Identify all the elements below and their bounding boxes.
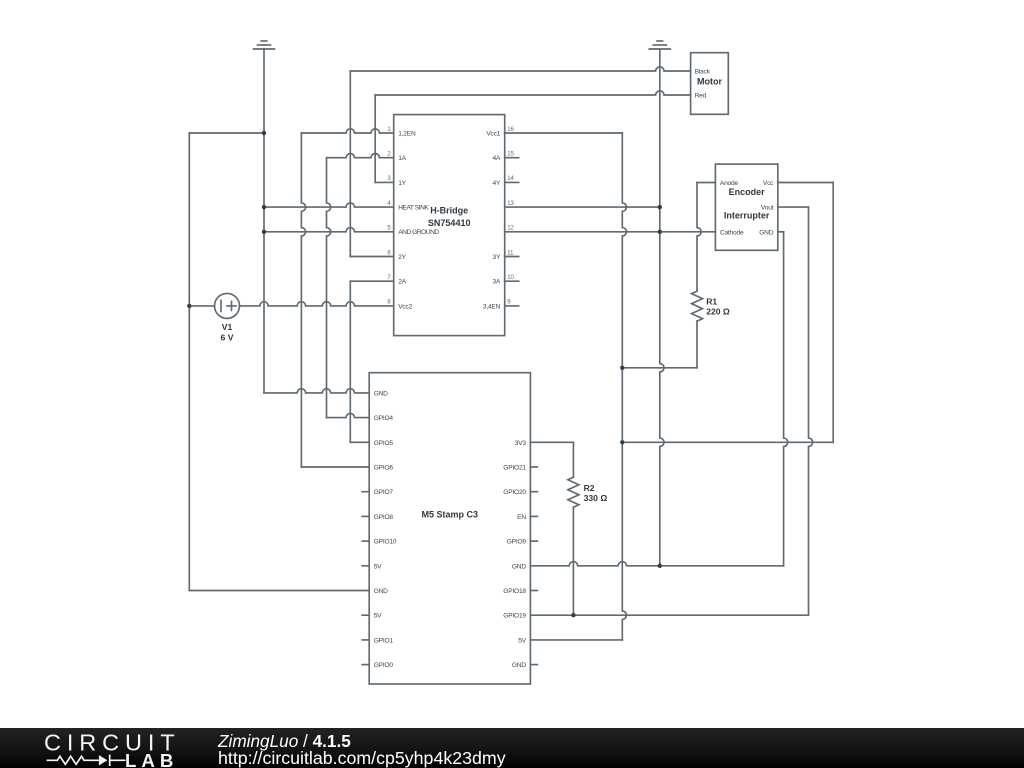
H-Bridge right pin stubs 15 14 11 10 9: [505, 158, 519, 306]
wire Vcc1 pin 16 to 5V net, horizontal: [505, 132, 623, 134]
M5 Stamp C3 box: [369, 373, 530, 684]
M5 pin labels left: [374, 390, 397, 669]
svg-text:HEAT SINK: HEAT SINK: [398, 205, 429, 212]
svg-text:2A: 2A: [398, 279, 406, 286]
node junction ground pin5 row: [262, 230, 266, 234]
Encoder title: [724, 187, 770, 221]
svg-text:GPIO6: GPIO6: [374, 465, 394, 472]
svg-text:GND: GND: [374, 588, 388, 595]
svg-text:GPIO20: GPIO20: [503, 489, 526, 496]
wire ground to HEAT SINK pin 4, horizontal: [264, 203, 394, 207]
svg-text:3: 3: [387, 176, 391, 182]
wire Encoder GND vertical: [784, 232, 788, 566]
node junction 5V net Vcc row: [620, 440, 624, 444]
wire R1 bottom to 5V net, horizontal: [622, 367, 697, 369]
svg-text:5: 5: [387, 226, 391, 232]
node junction ground pin13 row: [658, 205, 662, 209]
wire Encoder Vcc lead, horizontal: [778, 182, 833, 184]
svg-text:7: 7: [387, 275, 391, 281]
wire GPIO5 to 2A vertical: [349, 281, 351, 442]
wire M5 3V3 to R2 top, horizontal: [530, 441, 573, 443]
wire ground to AND GROUND pin 5, horizontal: [264, 228, 394, 232]
svg-text:4A: 4A: [493, 155, 501, 162]
wire Encoder Vout lead, horizontal: [778, 206, 809, 208]
svg-text:M5 Stamp C3: M5 Stamp C3: [422, 510, 479, 520]
svg-text:R2: R2: [584, 483, 595, 493]
svg-text:1Y: 1Y: [398, 180, 406, 187]
svg-text:1: 1: [387, 127, 391, 133]
M5 pin labels right: [503, 440, 526, 669]
svg-text:Vcc1: Vcc1: [486, 131, 500, 138]
resistor R1: [692, 183, 703, 368]
Encoder pin labels: [720, 180, 774, 236]
wire M5 5V right to 5V net, horizontal: [530, 639, 622, 641]
wire Motor Black to 2Y net, horizontal at motor black row: [350, 67, 690, 71]
ground symbol right: [649, 41, 670, 49]
wire Encoder GND lead, horizontal: [778, 231, 784, 233]
svg-text:GPIO7: GPIO7: [374, 489, 394, 496]
wire M5 GND right to Encoder GND, horizontal: [530, 562, 783, 566]
V1 label: [221, 322, 234, 342]
wire R1 top to Anode, horizontal: [697, 182, 715, 184]
svg-text:LAB: LAB: [125, 750, 178, 768]
svg-text:GPIO21: GPIO21: [503, 465, 526, 472]
ground symbol left: [254, 41, 275, 49]
voltage source V1: [215, 293, 240, 318]
wire to M5 GPIO6 pin, horizontal: [301, 466, 369, 468]
svg-text:5V: 5V: [374, 563, 382, 570]
svg-text:Cathode: Cathode: [720, 229, 744, 236]
wire 5V net vertical: [622, 133, 626, 640]
svg-text:5V: 5V: [374, 613, 382, 620]
svg-text:4Y: 4Y: [493, 180, 501, 187]
svg-text:330 Ω: 330 Ω: [584, 493, 608, 503]
svg-text:1A: 1A: [398, 155, 406, 162]
svg-text:3Y: 3Y: [493, 254, 501, 261]
svg-text:GPIO1: GPIO1: [374, 637, 394, 644]
node junction ground / V1- / 1,2EN row: [262, 131, 266, 135]
svg-text:Encoder: Encoder: [729, 187, 766, 197]
svg-text:15: 15: [507, 152, 514, 158]
svg-text:2Y: 2Y: [398, 254, 406, 261]
svg-text:R1: R1: [706, 296, 717, 306]
wire Vout to GPIO19 vertical: [809, 207, 813, 615]
Encoder Interrupter box: [715, 164, 777, 250]
wire 5V net to Encoder Vcc, horizontal: [622, 441, 833, 443]
svg-text:H-Bridge: H-Bridge: [430, 205, 468, 215]
wire M5 GPIO19 to Vout net, horizontal: [530, 614, 808, 616]
wire to M5 GPIO5 pin, horizontal: [350, 441, 369, 443]
wire GPIO4 to 1A pin 2, horizontal: [327, 154, 394, 158]
CircuitLab logo: [38, 729, 188, 768]
svg-text:GND: GND: [374, 390, 388, 397]
svg-text:GPIO0: GPIO0: [374, 662, 394, 669]
svg-text:GPIO5: GPIO5: [374, 440, 394, 447]
R1 label 220 ohm: [706, 296, 730, 316]
svg-text:13: 13: [507, 201, 514, 207]
svg-text:5V: 5V: [518, 637, 526, 644]
wire Motor Red to 1Y net, horizontal at motor red row: [375, 91, 690, 95]
svg-text:GND: GND: [512, 662, 526, 669]
svg-text:2: 2: [387, 152, 391, 158]
svg-text:11: 11: [507, 250, 514, 256]
svg-text:GND: GND: [759, 229, 773, 236]
wire V1 minus to ground, horizontal at pin1 row: [189, 132, 264, 134]
wire left ground vertical: [263, 49, 265, 393]
svg-text:6 V: 6 V: [221, 332, 234, 342]
Motor labels: [695, 69, 723, 100]
svg-text:Motor: Motor: [697, 77, 722, 87]
node junction ground pin12 row: [658, 230, 662, 234]
svg-text:10: 10: [507, 275, 514, 281]
svg-text:1,2EN: 1,2EN: [398, 131, 416, 138]
H-Bridge pin numbers: [387, 127, 514, 306]
footer url: [218, 748, 506, 768]
wire Motor Red to 1Y vertical: [374, 95, 376, 182]
svg-text:220 Ω: 220 Ω: [706, 306, 730, 316]
wire V1 plus to Vcc2 pin 8, horizontal: [240, 302, 394, 306]
svg-text:GPIO10: GPIO10: [374, 539, 397, 546]
svg-text:EN: EN: [517, 514, 526, 521]
footer title ZimingLuo / 4.1.5: [218, 731, 351, 752]
svg-text:Interrupter: Interrupter: [724, 210, 770, 220]
wire GPIO6 to 1,2EN vertical: [301, 133, 305, 467]
wire V1 minus to M5 GND pin, horizontal: [189, 590, 369, 592]
svg-text:GPIO18: GPIO18: [503, 588, 526, 595]
wire Motor Black to 2Y pin 6, horizontal: [350, 256, 393, 258]
svg-text:9: 9: [507, 300, 511, 306]
wire V1 minus vertical to M5 GND: [188, 133, 190, 591]
node junction ground M5 GND row: [658, 564, 662, 568]
svg-text:GPIO9: GPIO9: [507, 539, 527, 546]
M5 right pin stubs GPIO21 GPIO20 EN GPIO9 GPIO18 GND: [530, 467, 537, 665]
svg-text:SN754410: SN754410: [428, 218, 471, 228]
svg-text:AND GROUND: AND GROUND: [398, 229, 439, 236]
svg-text:GND: GND: [512, 563, 526, 570]
node junction 5V net R1 bottom: [620, 366, 624, 370]
node junction V1 minus: [187, 304, 191, 308]
svg-text:V1: V1: [222, 322, 233, 332]
svg-text:Vcc2: Vcc2: [398, 303, 412, 310]
svg-text:Red: Red: [695, 93, 707, 100]
wire GPIO6 to 1,2EN pin 1, horizontal: [301, 129, 393, 133]
wire Motor Red to 1Y pin 3, horizontal: [375, 181, 394, 183]
Motor box: [691, 53, 729, 115]
wire right ground vertical: [660, 49, 664, 566]
svg-text:14: 14: [507, 176, 514, 182]
wire Encoder Vcc to 5V vertical: [832, 183, 834, 443]
M5 left pin stubs GPIO7 GPIO8 GPIO10 5V 5V GPIO1 GPIO0: [362, 492, 369, 665]
wire to M5 GPIO4 pin, horizontal: [327, 413, 370, 417]
node junction R2 bottom GPIO19: [571, 613, 575, 617]
svg-text:16: 16: [507, 127, 514, 133]
resistor R2: [568, 442, 579, 615]
svg-text:Black: Black: [695, 69, 711, 76]
wire ground to M5 GND top-left pin, horizontal: [264, 389, 369, 393]
wire GPIO5 to 2A pin 7, horizontal: [350, 280, 393, 282]
svg-text:4: 4: [387, 201, 391, 207]
node junction ground pin4 row: [262, 205, 266, 209]
op-amp U1 H-Bridge SN754410 box: [394, 115, 505, 336]
H-Bridge pin labels right: [483, 131, 501, 311]
svg-text:GPIO8: GPIO8: [374, 514, 394, 521]
wire pin 13 to ground net, horizontal: [505, 206, 660, 208]
R2 label 330 ohm: [584, 483, 608, 503]
svg-text:8: 8: [387, 300, 391, 306]
H-Bridge title: [428, 205, 471, 228]
wire pin 12 to Cathode, horizontal: [505, 231, 716, 233]
H-Bridge pin labels left: [398, 131, 439, 311]
svg-text:GPIO19: GPIO19: [503, 613, 526, 620]
svg-text:3A: 3A: [493, 279, 501, 286]
svg-text:3V3: 3V3: [515, 440, 527, 447]
svg-text:GPIO4: GPIO4: [374, 415, 394, 422]
wire V1 minus lead, horizontal: [189, 305, 214, 307]
svg-text:3,4EN: 3,4EN: [483, 303, 501, 310]
footer black bar: [0, 728, 1024, 768]
wire GPIO4 to 1A vertical: [327, 158, 331, 418]
svg-text:6: 6: [387, 250, 391, 256]
wire Motor Black to 2Y vertical: [349, 71, 351, 257]
svg-text:12: 12: [507, 226, 514, 232]
